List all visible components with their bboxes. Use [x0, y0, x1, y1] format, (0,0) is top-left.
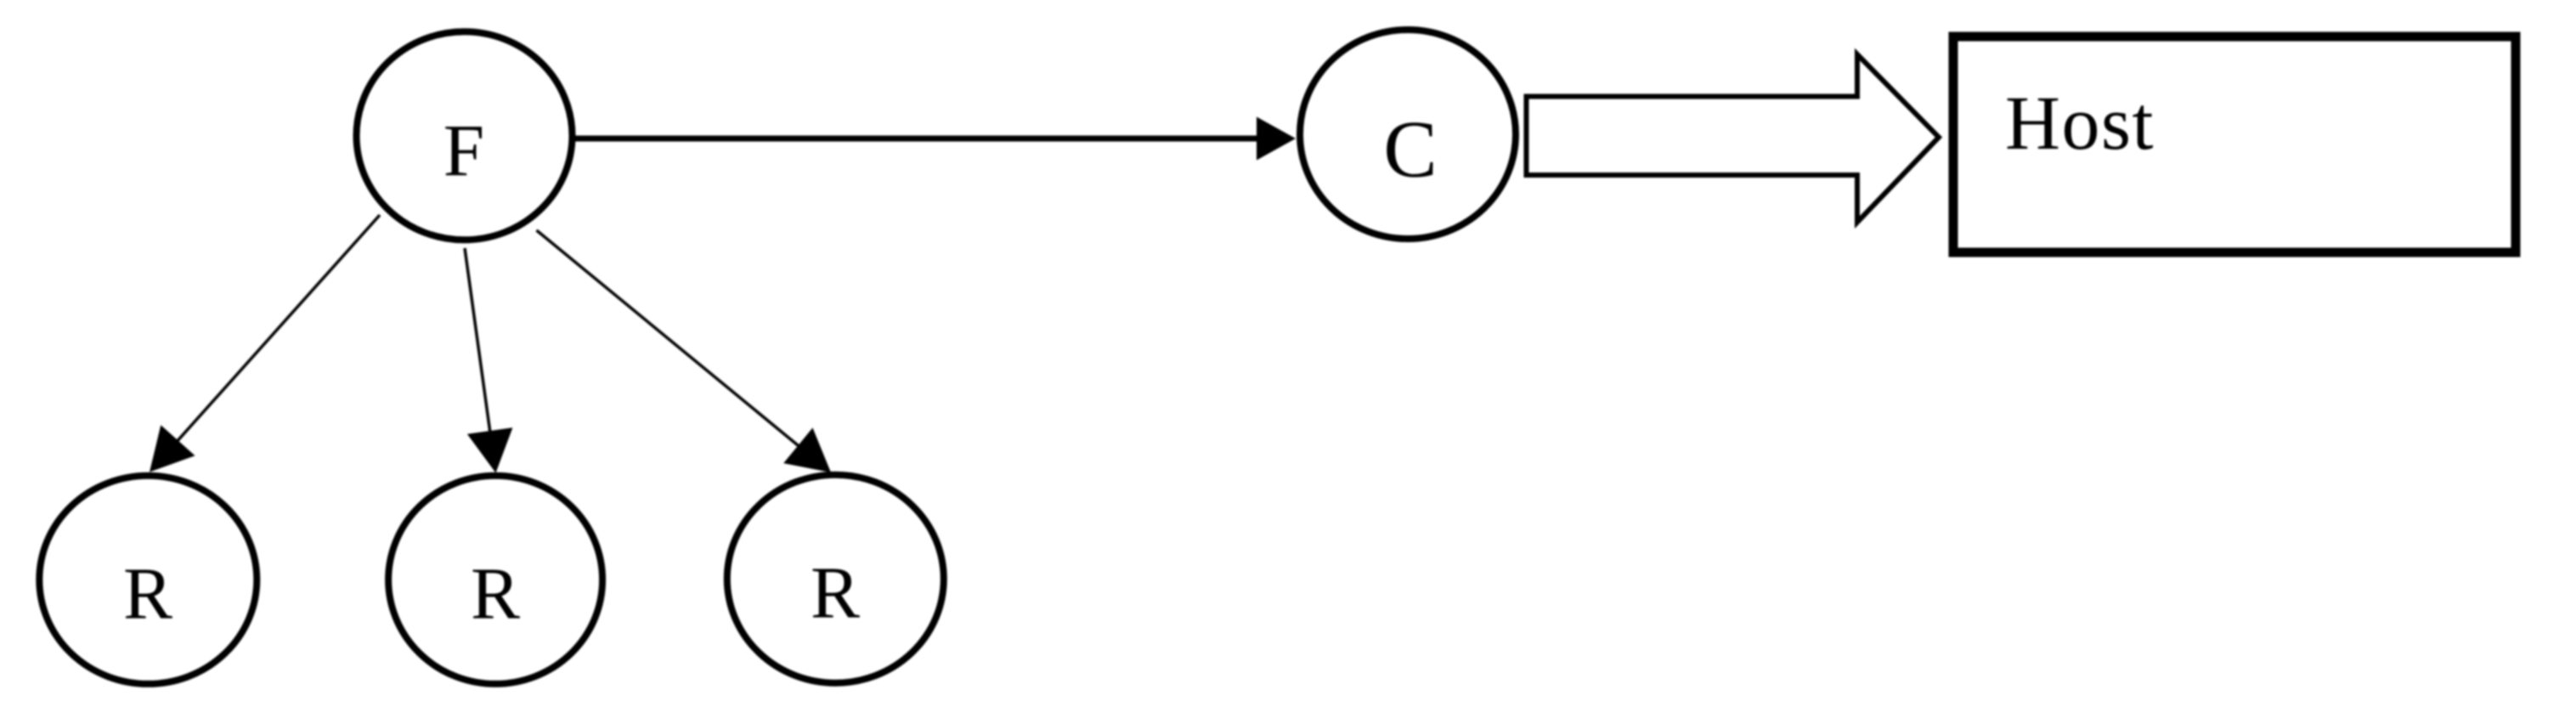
svg-text:F: F: [443, 109, 484, 191]
svg-text:C: C: [1383, 105, 1437, 195]
svg-text:R: R: [471, 552, 520, 635]
svg-text:Host: Host: [2005, 82, 2155, 166]
svg-text:R: R: [811, 551, 860, 634]
svg-text:R: R: [123, 552, 172, 635]
